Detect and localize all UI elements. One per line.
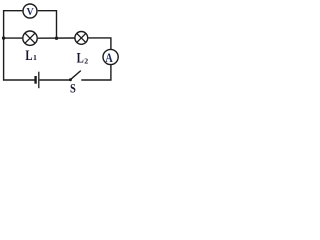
voltmeter U1 circle <box>23 4 37 18</box>
lamp L2 circle <box>75 32 88 45</box>
battery B1 long thin plate <box>38 72 40 89</box>
svg-text:L: L <box>25 48 32 64</box>
wire: row2 from lamp L2 to right corner down to ammeter <box>88 38 111 49</box>
svg-text:1: 1 <box>33 53 37 62</box>
svg-text:V: V <box>27 7 35 18</box>
label S <box>70 80 76 95</box>
svg-text:L: L <box>77 50 84 66</box>
wire: left vertical top + top horizontal left segment <box>4 11 23 38</box>
svg-text:S: S <box>70 80 76 95</box>
label L2 <box>77 50 89 66</box>
lamp L1 circle <box>23 31 37 45</box>
wire: left vertical lower + bottom horizontal to battery <box>4 38 35 80</box>
wire: row2 from lamp L1 to lamp L2 through junction <box>38 37 75 39</box>
lamp L2 cross <box>77 33 86 42</box>
lamp L1 cross <box>25 33 35 43</box>
svg-text:2: 2 <box>84 56 88 65</box>
battery B1 short thick plate <box>34 76 36 84</box>
wire: top horizontal right segment + voltmeter branch down <box>38 11 57 39</box>
svg-text:A: A <box>105 51 113 65</box>
wire: row2 from left junction to lamp L1 <box>4 37 23 39</box>
ammeter U2 circle <box>103 49 118 64</box>
node: junction dot at voltmeter branch <box>55 37 58 40</box>
switch S lever <box>71 71 81 80</box>
switch S pivot dot <box>69 78 72 81</box>
wire: ammeter bottom to corner to switch right stub <box>81 65 111 80</box>
label L1 <box>25 48 37 64</box>
wire: battery to switch pivot <box>40 79 70 81</box>
node: junction dot left <box>2 36 5 39</box>
ammeter label A <box>105 51 113 65</box>
voltmeter label V <box>27 7 35 18</box>
